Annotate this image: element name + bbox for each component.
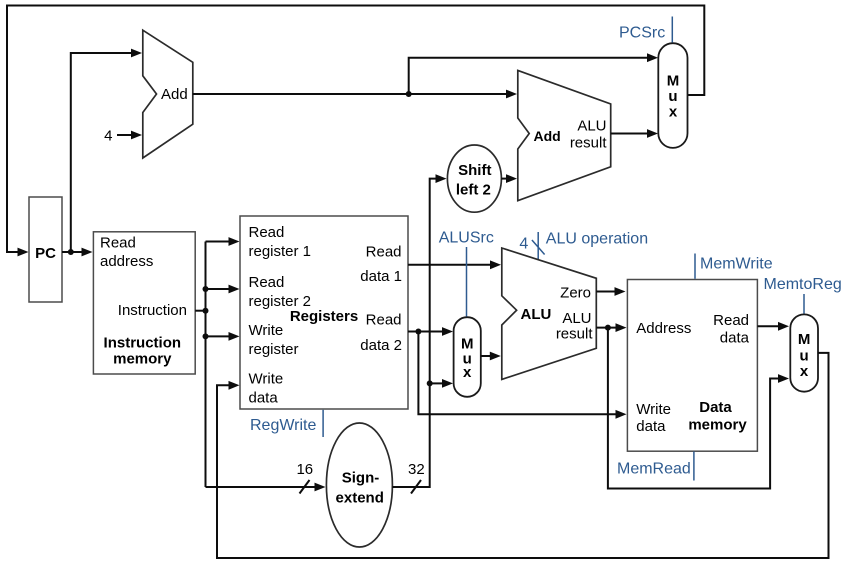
mux ALUSrc (Mux)	[454, 317, 481, 397]
svg-text:data: data	[636, 418, 666, 435]
svg-text:MemtoReg: MemtoReg	[764, 276, 842, 293]
wire: constant 4 into Add	[117, 134, 132, 136]
svg-text:PCSrc: PCSrc	[619, 25, 665, 42]
wire: bus to write register	[206, 335, 230, 337]
svg-text:x: x	[463, 364, 472, 381]
bus width tick 32	[411, 480, 421, 494]
wire: instruction bus vertical	[205, 242, 207, 488]
svg-text:Read: Read	[366, 312, 402, 329]
wire: read data 2 down to data memory write data	[418, 332, 616, 415]
wire: read data 2 to ALUSrc mux input 0	[408, 331, 443, 333]
svg-text:u: u	[668, 88, 677, 105]
wire: instruction output	[195, 310, 205, 312]
svg-text:data 2: data 2	[360, 337, 402, 354]
instruction memory box	[93, 232, 195, 374]
svg-text:ALUSrc: ALUSrc	[439, 230, 494, 247]
node: ALU result junction	[605, 325, 611, 331]
alu ALU	[502, 248, 597, 379]
node: instruction bus junction (instruction output)	[203, 308, 209, 314]
sign extend unit	[326, 423, 392, 547]
svg-text:Sign-: Sign-	[342, 470, 380, 487]
adder Add (PC+4)	[143, 30, 193, 158]
wire: bus to read register 2	[206, 288, 230, 290]
adder Add (branch target)	[518, 70, 611, 200]
svg-text:Read: Read	[100, 234, 136, 251]
mux MemtoReg (Mux)	[790, 314, 818, 391]
wire: read data 1 to ALU	[408, 264, 491, 266]
bus width tick 16	[300, 480, 310, 494]
svg-text:Read: Read	[249, 274, 285, 291]
svg-text:Zero: Zero	[560, 284, 591, 301]
svg-text:32: 32	[408, 461, 425, 478]
wire: bus down to sign-extend	[206, 486, 316, 488]
wire: branch adder result to PCSrc mux input 1	[611, 133, 648, 135]
svg-text:Address: Address	[636, 320, 691, 337]
svg-text:Read: Read	[366, 244, 402, 261]
svg-text:result: result	[570, 135, 608, 152]
svg-text:Read: Read	[713, 312, 749, 329]
wire: PC+4 up to PCSrc mux input 0	[409, 58, 648, 94]
svg-text:Read: Read	[249, 224, 285, 241]
svg-text:Shift: Shift	[458, 162, 491, 179]
wire: shift left 2 to branch adder	[501, 178, 506, 180]
svg-text:data 1: data 1	[360, 268, 402, 285]
svg-text:ALU: ALU	[577, 118, 606, 135]
svg-text:4: 4	[519, 235, 528, 252]
wire: bus to read register 1	[206, 241, 230, 243]
svg-text:M: M	[667, 73, 680, 90]
wire: sign-extend output up to shift left 2	[392, 179, 436, 487]
data memory box	[627, 280, 757, 452]
svg-text:result: result	[556, 325, 594, 342]
svg-text:4: 4	[104, 128, 112, 145]
svg-text:Instruction: Instruction	[104, 335, 182, 352]
svg-text:ALU operation: ALU operation	[546, 230, 648, 247]
svg-text:ALU: ALU	[521, 306, 552, 323]
svg-text:data: data	[249, 390, 279, 407]
wire: read data to MemtoReg mux input 0	[757, 325, 778, 327]
svg-text:MemRead: MemRead	[617, 461, 691, 478]
svg-text:address: address	[100, 253, 153, 270]
node: instruction bus junction (read register 2)	[203, 286, 209, 292]
shift left 2 unit	[447, 145, 501, 212]
svg-text:Write: Write	[249, 322, 284, 339]
svg-text:memory: memory	[113, 351, 172, 368]
register PC	[29, 197, 62, 302]
wire: branch write-back loop from PCSrc mux output to PC input	[7, 6, 704, 253]
wire: PC output to instruction memory read address	[62, 251, 82, 253]
register file Registers	[240, 216, 408, 409]
svg-text:Write: Write	[636, 401, 671, 418]
svg-text:data: data	[720, 330, 750, 347]
wire: PC output up to Add	[71, 53, 132, 252]
wire: sign-extend output to ALUSrc mux input 1	[430, 382, 443, 384]
svg-text:left 2: left 2	[456, 181, 491, 198]
wire: write-back loop from MemtoReg mux to registers write data	[217, 353, 829, 558]
wire: ALUSrc mux output to ALU	[481, 355, 491, 357]
svg-text:Data: Data	[699, 399, 732, 416]
svg-text:memory: memory	[688, 417, 747, 434]
svg-text:16: 16	[296, 461, 313, 478]
svg-text:x: x	[800, 363, 809, 380]
node: read data 2 junction	[415, 329, 421, 335]
node: sign-extend output junction	[427, 380, 433, 386]
svg-text:M: M	[798, 331, 811, 348]
svg-text:register 1: register 1	[249, 243, 312, 260]
wire: ALU result loop down to MemtoReg mux input 1	[608, 328, 779, 489]
svg-text:Add: Add	[161, 86, 188, 103]
svg-text:x: x	[669, 104, 678, 121]
svg-text:Add: Add	[534, 128, 561, 144]
node: instruction bus junction (write register)	[203, 333, 209, 339]
mux PCSrc (Mux)	[658, 43, 687, 148]
node: PC output junction	[68, 249, 74, 255]
wire: ALU result to data memory address	[596, 327, 616, 329]
svg-text:Instruction: Instruction	[118, 302, 187, 319]
svg-text:MemWrite: MemWrite	[700, 256, 773, 273]
svg-text:ALU: ALU	[562, 310, 591, 327]
svg-text:Registers: Registers	[290, 308, 358, 325]
wire: Zero output	[596, 291, 615, 293]
node: PC+4 junction	[406, 91, 412, 97]
svg-text:Write: Write	[249, 371, 284, 388]
wire: Add result to second adder	[193, 93, 507, 95]
svg-text:extend: extend	[336, 490, 384, 507]
svg-text:RegWrite: RegWrite	[250, 417, 316, 434]
svg-text:register: register	[249, 341, 299, 358]
svg-text:PC: PC	[35, 245, 56, 262]
